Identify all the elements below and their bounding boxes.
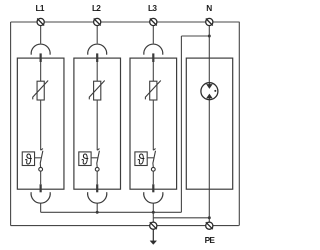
node junction dot module2 bus	[96, 211, 99, 214]
spark gap gas dot	[214, 90, 216, 92]
wire varistor-to-switch	[40, 100, 42, 150]
module box	[186, 58, 232, 189]
pin stub bottom	[152, 184, 154, 192]
surge module 2 (L2 varistor path)	[74, 26, 121, 204]
module box	[17, 58, 64, 189]
wire stub-to-varistor	[40, 62, 42, 81]
terminal earth (bottom)	[150, 222, 157, 229]
terminal PE (bottom)	[206, 222, 213, 229]
wire contact-to-stub	[40, 171, 42, 184]
wire terminal-to-plug	[40, 26, 42, 44]
svg-text:L3: L3	[148, 3, 157, 13]
wire thermal-to-blade	[147, 157, 154, 159]
surge module 3 (L3 varistor path)	[130, 26, 177, 204]
svg-text:N: N	[206, 3, 212, 13]
wire top bus L1-L2-L3-N	[11, 21, 240, 23]
spark gap circle	[201, 83, 218, 100]
svg-text:L1: L1	[36, 3, 45, 13]
wire bottom module bus	[41, 211, 182, 213]
spark gap lower electrode arrow	[207, 94, 212, 99]
pin stub top	[96, 53, 98, 62]
module box	[74, 58, 121, 189]
pin stub bottom	[40, 184, 42, 192]
wire contact-to-stub	[152, 171, 154, 184]
wire terminal-to-plug	[152, 26, 154, 44]
spark gap upper electrode arrow	[207, 83, 212, 88]
plug-in contact arc bottom	[88, 192, 107, 203]
node junction dot PE link	[208, 216, 211, 219]
plug-in contact arc bottom	[144, 192, 163, 203]
varistor body	[37, 81, 44, 100]
wire riser x=181.4	[180, 36, 182, 212]
wire module2 arc-to-bus drop	[96, 203, 98, 212]
terminal L1	[37, 18, 44, 25]
wire left rail	[10, 22, 12, 226]
varistor diagonal	[89, 81, 104, 100]
varistor diagonal	[33, 81, 48, 100]
wire varistor-to-switch	[152, 100, 154, 150]
surge module 1 (L1 varistor path)	[17, 26, 64, 204]
wire thermal-to-blade	[35, 157, 42, 159]
svg-text:ϑ: ϑ	[25, 151, 32, 167]
thermal disconnect box	[79, 152, 91, 166]
plug-in contact arc top	[88, 44, 107, 55]
node junction dot module3 bus	[152, 211, 155, 214]
switch blade	[40, 151, 43, 168]
wire module1 arc-to-bus drop	[40, 203, 42, 212]
wire terminal-to-plug	[96, 26, 98, 44]
wire varistor-to-switch	[96, 100, 98, 150]
spark gap module N-PE	[186, 58, 232, 189]
plug-in contact arc top	[144, 44, 163, 55]
wire junction link below N	[181, 35, 209, 37]
switch blade	[153, 151, 156, 168]
plug-in contact arc top	[31, 44, 50, 55]
node junction dot below N	[208, 35, 211, 38]
terminal L3	[150, 18, 157, 25]
ground symbol	[150, 229, 157, 244]
varistor diagonal	[145, 81, 160, 100]
switch fixed contact circle	[151, 167, 155, 171]
wire thermal-to-blade	[91, 157, 98, 159]
wire stub-to-varistor	[96, 62, 98, 81]
terminal L2	[94, 18, 101, 25]
switch fixed contact circle	[39, 167, 43, 171]
module box	[130, 58, 177, 189]
svg-text:PE: PE	[205, 235, 216, 245]
svg-text:ϑ: ϑ	[82, 151, 89, 167]
svg-text:ϑ: ϑ	[138, 151, 145, 167]
switch fixed contact circle	[95, 167, 99, 171]
terminal N	[206, 18, 213, 25]
wire right rail N-to-PE	[238, 22, 240, 226]
varistor body	[94, 81, 101, 100]
switch moving-contact tick	[97, 149, 99, 151]
switch blade	[97, 151, 100, 168]
wire PE junction link	[153, 217, 209, 219]
thermal disconnect box	[22, 152, 34, 166]
plug-in contact arc bottom	[31, 192, 50, 203]
pin stub bottom	[96, 184, 98, 192]
wire stub-to-varistor	[152, 62, 154, 81]
varistor body	[150, 81, 157, 100]
wire module3 arc-to-ground drop	[152, 203, 154, 222]
pin stub top	[152, 53, 154, 62]
wire contact-to-stub	[96, 171, 98, 184]
thermal disconnect box	[135, 152, 147, 166]
switch moving-contact tick	[41, 149, 43, 151]
wire bottom outer bus (PE bus)	[11, 225, 239, 227]
switch moving-contact tick	[153, 149, 155, 151]
svg-text:L2: L2	[92, 3, 101, 13]
wire N drop through spark-gap module	[208, 26, 210, 223]
pin stub top	[40, 53, 42, 62]
